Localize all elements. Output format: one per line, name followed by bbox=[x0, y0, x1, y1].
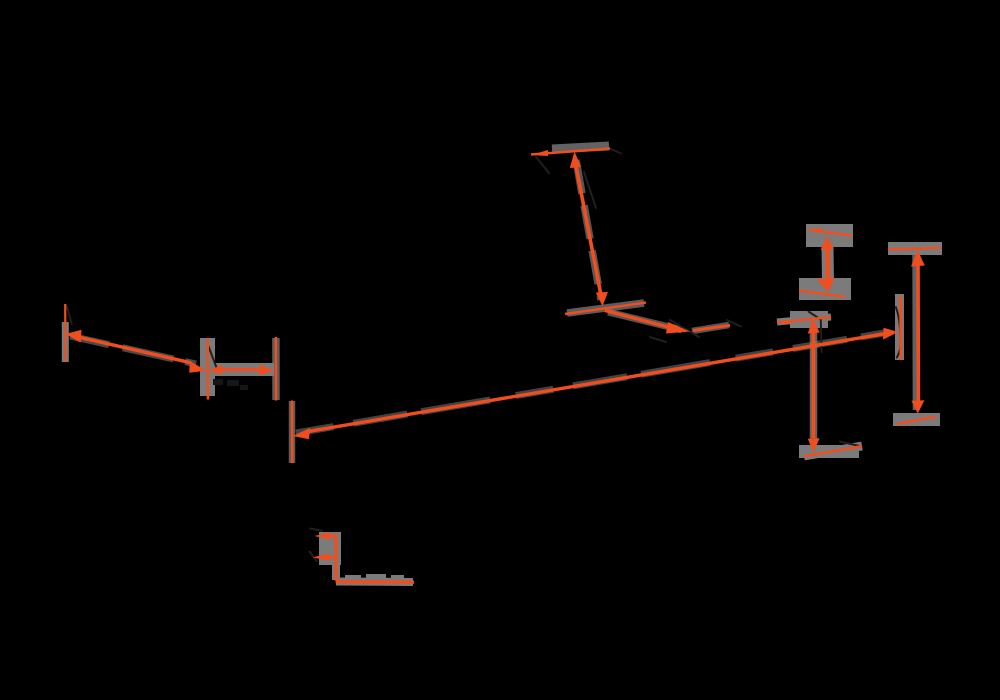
right arrow H1 bbox=[189, 361, 206, 373]
arrow 1 bbox=[314, 532, 330, 539]
bottom tick bbox=[804, 446, 862, 456]
left arrow bbox=[66, 330, 82, 343]
halo dim C bbox=[799, 224, 853, 300]
top tick bbox=[889, 248, 941, 250]
mid tick bbox=[206, 338, 209, 400]
arrow 2 bbox=[313, 553, 330, 561]
arrow down bbox=[596, 292, 608, 306]
dimension line bbox=[306, 334, 884, 432]
stem bbox=[916, 264, 920, 402]
halo dim F bbox=[777, 311, 862, 458]
horizontal leader bbox=[336, 580, 414, 584]
arrow up bbox=[808, 318, 820, 334]
right arrow H2 bbox=[259, 364, 274, 375]
desk edge near dim A top bbox=[536, 157, 549, 173]
desk top lower edge near callout I bbox=[310, 552, 317, 562]
leg edge near H mid tick bbox=[209, 347, 217, 368]
desk edge near F top bbox=[809, 312, 821, 320]
extension line bbox=[576, 166, 602, 298]
left arrow H2 bbox=[209, 365, 222, 375]
bottom tick bbox=[565, 303, 646, 315]
arrow down bbox=[911, 400, 924, 413]
arrow up bbox=[911, 250, 925, 267]
dimension G (long diagonal) bbox=[292, 296, 901, 463]
halo callout I bbox=[319, 532, 413, 582]
dimension C (right small vertical) bbox=[799, 228, 852, 297]
leg edge near H left tick bbox=[67, 306, 72, 324]
right arrow bbox=[883, 328, 898, 340]
top tick bbox=[809, 230, 852, 236]
orange dimension drawing bbox=[65, 149, 941, 583]
halo dim B bbox=[608, 312, 729, 331]
leg edge right of F stem bbox=[820, 320, 823, 352]
top tick bbox=[777, 317, 831, 323]
halo dim A bbox=[552, 146, 644, 313]
line H2 bbox=[221, 368, 261, 371]
dimension B (depth arrow) bbox=[605, 311, 730, 334]
dimension F (mid-right vertical) bbox=[777, 317, 862, 456]
bottom tick bbox=[799, 291, 845, 298]
halo dim G bbox=[292, 294, 904, 463]
desk edge near dim B lower bbox=[650, 337, 666, 342]
dimension D (right tall vertical) bbox=[889, 248, 941, 424]
foot edge near F bottom tick bbox=[840, 442, 862, 447]
right tick bbox=[899, 296, 902, 360]
dimension A (top-center vertical) bbox=[531, 149, 646, 315]
arrow up bbox=[570, 152, 581, 169]
desk leg edge near dim A stem bbox=[584, 172, 596, 208]
bottom tick bbox=[897, 417, 936, 425]
arrow down bbox=[817, 278, 835, 292]
vertical leader bbox=[334, 535, 337, 581]
desk edge right of dim B bbox=[727, 320, 741, 327]
arrow up bbox=[821, 236, 834, 250]
callout I (bottom-left leader) bbox=[313, 532, 414, 582]
halo dim H bbox=[65, 322, 276, 400]
left tick bbox=[291, 401, 294, 464]
stem bbox=[812, 331, 816, 438]
halo dim D bbox=[888, 242, 942, 426]
far-left tick bbox=[64, 304, 66, 362]
leg curve near G right tick bbox=[896, 307, 901, 358]
dimension H (left chained pair) bbox=[65, 304, 276, 401]
line H1 bbox=[79, 337, 191, 363]
right tick bbox=[275, 337, 278, 401]
stem bbox=[825, 247, 830, 281]
left arrow bbox=[293, 428, 310, 439]
arrow down bbox=[808, 438, 820, 452]
desk top edge near dim B bbox=[670, 320, 699, 337]
faint dimension text remnants bbox=[213, 379, 248, 390]
top tick bbox=[531, 149, 610, 155]
desk top edge near callout I bbox=[310, 529, 322, 531]
desk edge right of dim A top tick bbox=[611, 149, 621, 154]
halo artifacts (gray jpeg blocks) bbox=[65, 146, 942, 582]
faint product drawing lines bbox=[67, 149, 901, 561]
